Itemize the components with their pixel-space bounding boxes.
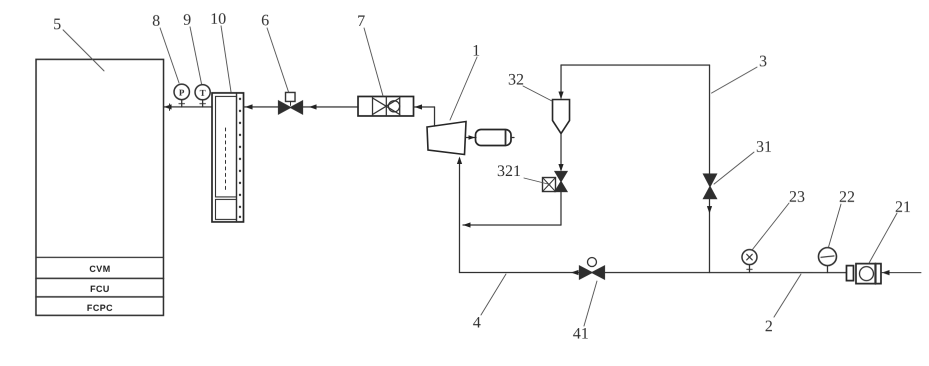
arrow down into cyclone 32 [558, 92, 563, 100]
pressure regulator 21 [846, 264, 881, 284]
gauge 9 (T) [195, 85, 210, 107]
purge valve 31 [703, 174, 716, 199]
wire: inlet line right of regulator 21 [881, 272, 921, 274]
leader 1 [450, 57, 477, 120]
svg-text:5: 5 [53, 16, 61, 33]
svg-text:P: P [179, 87, 185, 97]
svg-text:7: 7 [357, 13, 365, 30]
leader lines [63, 26, 897, 326]
dryer column 10 [212, 93, 244, 222]
svg-text:T: T [200, 88, 206, 98]
svg-text:21: 21 [895, 199, 911, 216]
svg-text:321: 321 [497, 163, 521, 180]
leader 8 [160, 28, 179, 83]
leader 4 [481, 274, 506, 315]
arrow into flowmeter 7 [415, 104, 423, 109]
leader 23 [752, 203, 789, 250]
leader 321 [524, 178, 550, 185]
arrow into box 5 [164, 104, 172, 111]
leader 10 [221, 26, 231, 92]
leader 21 [869, 213, 897, 263]
wire: supply line 2 (bottom, right of valve 41) [604, 272, 846, 274]
wire: corner down into compressor 1 [434, 107, 436, 126]
wire: valve 321 down to drain branch [560, 192, 562, 225]
wire: bypass line 3 right vertical upper [709, 65, 711, 174]
svg-text:2: 2 [765, 318, 773, 335]
svg-text:10: 10 [210, 11, 226, 28]
svg-text:8: 8 [152, 13, 160, 30]
solenoid drain valve 321 [542, 172, 567, 192]
arrow up into compressor 1 [457, 156, 462, 164]
leader 7 [364, 28, 383, 96]
pressure gauge 22 [818, 248, 836, 273]
leader 22 [828, 204, 841, 247]
leader 32 [523, 86, 552, 101]
compressor 1 [427, 121, 466, 154]
leader 31 [714, 152, 754, 184]
wire: drain branch to suction riser [463, 224, 561, 226]
leader 5 [63, 30, 104, 71]
leader 3 [712, 67, 758, 93]
arrow down after valve 31 [707, 206, 712, 214]
arrow into valve 41 [571, 270, 579, 275]
wire: cyclone top riser [560, 65, 562, 98]
cyclone separator 32 [553, 100, 570, 134]
valve 6 [279, 92, 303, 114]
gauge 8 (P) [174, 84, 189, 107]
wire: recirculation suction riser [458, 158, 460, 272]
svg-text:22: 22 [839, 189, 855, 206]
svg-text:6: 6 [261, 12, 269, 29]
flowmeter 7 [358, 96, 414, 116]
svg-text:23: 23 [789, 189, 805, 206]
svg-text:CVM: CVM [89, 264, 110, 274]
svg-text:31: 31 [756, 139, 772, 156]
wire: box5 to dryer 10 [164, 106, 213, 108]
svg-text:9: 9 [183, 12, 191, 29]
shutoff valve 41 [579, 258, 604, 280]
svg-text:3: 3 [759, 53, 767, 70]
leader 6 [267, 28, 289, 92]
arrow into suction riser [463, 222, 471, 227]
wire: line 3 lower vertical [708, 199, 710, 273]
sensor 23 [742, 250, 757, 273]
leader 2 [774, 274, 801, 317]
svg-text:32: 32 [508, 72, 524, 89]
wire: bypass line 3 top [561, 64, 710, 66]
wire: cyclone 32 down to valve 321 [560, 134, 562, 171]
leader 41 [584, 281, 597, 326]
svg-text:FCU: FCU [90, 284, 110, 294]
wire: supply line 4 (bottom, left of valve 41) [459, 271, 579, 273]
svg-text:4: 4 [473, 315, 481, 332]
fuel cell system box 5 [36, 59, 164, 315]
svg-text:FCPC: FCPC [87, 303, 113, 313]
wire: valve 6 to flowmeter 7 [303, 106, 359, 108]
muffler on compressor outlet [466, 130, 514, 146]
leader 9 [190, 27, 202, 84]
svg-text:41: 41 [573, 326, 589, 343]
wire: flowmeter 7 to compressor inlet corner [414, 106, 435, 108]
arrow into regulator 21 [882, 270, 890, 275]
arrow into valve 6 [309, 104, 317, 109]
arrow into dryer 10 [245, 104, 253, 109]
wire: dryer 10 to valve 6 [244, 106, 279, 108]
arrow down into valve 321 [558, 164, 563, 172]
svg-text:1: 1 [472, 43, 480, 60]
